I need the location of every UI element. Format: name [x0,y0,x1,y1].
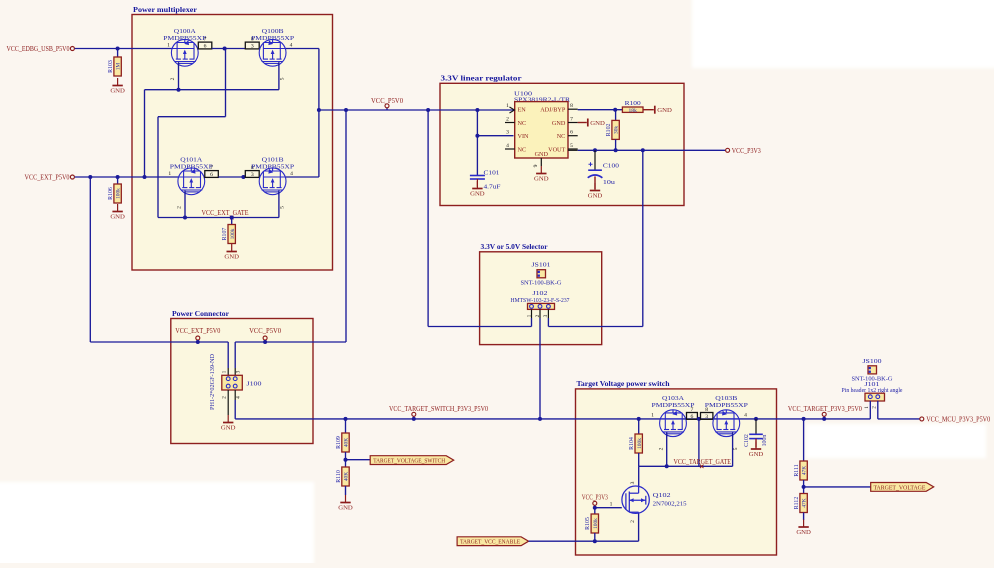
wire VCC_P3V3 to Q102 gate [595,507,622,509]
svg-text:VCC_EXT_GATE: VCC_EXT_GATE [202,209,249,217]
wire Q100B drain down [278,62,280,90]
resistor R107 100k [231,218,233,225]
resistor R103 1M [117,49,119,58]
block 3.3V or 5.0V Selector [480,252,602,345]
junction U100 pin1/pin3 feed [475,108,479,112]
resistor R110 40K [342,467,349,486]
wire vertical x319 [318,49,320,178]
U100 right pin 6 NC [568,135,578,137]
svg-text:R110: R110 [336,470,342,483]
junction Q101A drain [183,216,187,220]
svg-text:R111: R111 [794,464,800,476]
junction R107 top [230,216,234,220]
svg-text:1: 1 [526,314,532,317]
svg-text:4: 4 [236,396,242,399]
net VCC_EXT_GATE wire [158,217,279,219]
svg-text:SNT-100-BK-G: SNT-100-BK-G [521,279,562,286]
svg-text:2N7002,215: 2N7002,215 [653,501,688,508]
svg-text:3: 3 [236,370,242,373]
wire VCC_EDBG_USB_P5V0 to Q100A [75,48,172,50]
svg-text:VCC_MCU_P3V3_P5V0: VCC_MCU_P3V3_P5V0 [926,415,990,423]
svg-text:30k: 30k [614,126,620,134]
svg-text:PMDPB55XP: PMDPB55XP [705,402,748,409]
wire to TARGET_VOLTAGE_SWITCH label [346,459,371,461]
svg-text:1: 1 [864,406,870,409]
svg-text:Q100B: Q100B [262,28,285,35]
svg-text:R109: R109 [336,436,342,449]
svg-text:TARGET_VOLTAGE_SWITCH: TARGET_VOLTAGE_SWITCH [373,458,445,465]
svg-text:4: 4 [744,413,747,419]
svg-text:18k: 18k [629,108,638,114]
gate pin box Q101A pins 7/6 [205,171,219,178]
U100 left pin 4 NC [505,148,515,150]
svg-text:10u: 10u [603,179,616,186]
junction R106 top [116,175,120,179]
junction x428 [426,108,430,112]
junction R102 bottom [614,148,618,152]
svg-text:VCC_EXT_P5V0: VCC_EXT_P5V0 [25,174,70,182]
svg-text:1: 1 [506,103,509,109]
net VCC_TARGET_SWITCH_P3V3_P5V0 wire [235,418,870,420]
svg-text:2: 2 [177,206,183,209]
junction Q103A drain [665,464,669,468]
svg-text:47K: 47K [802,466,808,475]
svg-text:Q101A: Q101A [180,157,202,164]
svg-text:C100: C100 [603,163,620,170]
wire J102 pin3 [547,318,549,327]
junction C100 [593,148,597,152]
svg-text:100k: 100k [116,188,122,199]
wire J101 pin1 down [869,401,871,419]
svg-text:2: 2 [658,447,664,450]
resistor R111 47K [803,419,805,461]
U100 pin1 input arrow [510,107,515,113]
svg-text:ADJ/BYP: ADJ/BYP [540,107,566,114]
gate pin box Q103B pins 8/3 [701,413,713,420]
wire x346 down to power connector [345,110,347,342]
svg-text:J100: J100 [247,381,263,388]
wire J101 pin2 to VCC_MCU port [878,418,920,420]
net VCC_TARGET_GATE wire [639,465,733,467]
junction x144.5 [143,175,147,179]
svg-text:NC: NC [518,146,527,153]
gate pin box Q103A pins 7/6 [687,413,698,420]
resistor R105 100k [594,508,596,514]
wire U100 pin8 ADJ to R100 [578,109,623,111]
wire gate tie vertical x225.5 [225,49,227,117]
svg-text:100k: 100k [593,518,599,529]
svg-text:C102: C102 [744,434,750,447]
wire J100 pin1 drop [227,342,229,368]
svg-text:NC: NC [518,120,527,127]
svg-text:3: 3 [705,414,708,420]
net VCC_P5V0 wire [319,109,515,111]
svg-text:1: 1 [651,413,654,419]
wire VCC_EXT_P5V0 row [75,176,178,178]
wire Q100A drain down [178,62,180,90]
junction to power connector drop [88,175,92,179]
svg-text:5: 5 [280,77,286,80]
svg-text:R106: R106 [108,187,114,200]
wire Q101B drain down [278,191,280,218]
resistor R106 100k [117,177,119,184]
wire vertical x144.5 to VCC_EXT line [144,90,146,177]
svg-text:1: 1 [221,370,227,373]
svg-text:6: 6 [570,130,573,136]
gate pin box Q100A pins 7/6 [198,42,212,49]
junction gate tie bottom pair [241,175,245,179]
svg-text:7: 7 [691,407,694,413]
junction x346 [344,108,348,112]
junction R111/R112 [803,480,805,494]
svg-text:TARGET_VCC_ENABLE: TARGET_VCC_ENABLE [460,539,520,546]
svg-text:GND: GND [534,176,549,183]
svg-text:Q101B: Q101B [262,157,285,164]
junction Q100A drain [177,88,181,92]
wire Q102 source up [638,514,640,542]
svg-text:VIN: VIN [518,133,530,140]
svg-text:7: 7 [210,165,213,171]
svg-text:6: 6 [210,172,213,178]
svg-text:NC: NC [557,133,566,140]
svg-text:Q103B: Q103B [715,395,738,402]
svg-text:GND: GND [221,425,236,432]
junction R111 top [802,417,806,421]
resistor R109 40K [345,419,347,433]
ground under C101 [476,181,478,189]
junction J102 pin2 [538,417,542,421]
svg-text:1: 1 [167,42,170,48]
net label arrow TARGET_VOLTAGE_SWITCH [370,456,454,465]
svg-text:100n: 100n [762,435,768,447]
svg-text:4: 4 [290,171,293,177]
capacitor C102 100n [755,419,757,434]
svg-text:2: 2 [221,396,227,399]
svg-text:Power multiplexer: Power multiplexer [133,5,198,14]
wire gate tie horizontal y116.7 [158,116,226,118]
ground under R107 [231,244,233,252]
svg-text:VCC_EXT_P5V0: VCC_EXT_P5V0 [175,327,220,335]
svg-text:J102: J102 [533,290,548,297]
net VCC_P3V3 wire from VOUT [568,149,578,151]
gate pin box Q101B pins 8/3 [245,171,259,178]
svg-text:3: 3 [630,481,636,484]
svg-text:2: 2 [535,314,541,317]
svg-text:EN: EN [518,107,527,114]
wire Q103A drain down [666,433,668,467]
junction Q103 gate tie [697,417,701,421]
svg-text:JS100: JS100 [863,358,883,365]
svg-text:VOUT: VOUT [548,146,565,153]
net TARGET_VCC_ENABLE wire [529,540,639,542]
svg-text:Target Voltage power switch: Target Voltage power switch [577,379,670,388]
U100 right pin 7 GND [568,122,578,124]
wire drain tie top pair [145,89,279,91]
port VCC_MCU_P3V3_P5V0 [920,417,924,421]
block Power Connector [171,319,313,444]
wire between Q100A and Q100B gates [212,48,246,50]
svg-text:Q102: Q102 [653,492,671,499]
svg-text:100k: 100k [230,228,236,239]
svg-text:4.7uF: 4.7uF [484,184,501,191]
wire vertical x158 to VCC_EXT_GATE [157,117,159,218]
svg-text:Power Connector: Power Connector [172,309,230,318]
wire Q100B pin4 to corner [286,48,319,50]
svg-text:GND: GND [552,120,566,127]
port VCC_P3V3 [726,148,730,152]
svg-text:40K: 40K [344,472,350,481]
wire VCC_EXT drop x90.3 [89,177,91,342]
svg-text:3: 3 [251,172,254,178]
svg-text:47K: 47K [802,498,808,507]
svg-text:R112: R112 [794,497,800,510]
svg-text:7: 7 [204,37,207,43]
junction R104 top [637,417,641,421]
junction x319/y110 [317,108,321,112]
ground right of R100 [654,106,656,114]
svg-text:TARGET_VOLTAGE: TARGET_VOLTAGE [873,484,925,491]
port VCC_TARGET_P3V3_P5V0 [823,416,825,419]
ground under R112 [803,513,805,521]
svg-text:2: 2 [630,520,636,523]
svg-text:1: 1 [610,502,613,508]
junction selector drop [641,148,645,152]
wire Q101B pin4 to x319 [286,176,319,178]
ground under U100 [540,166,542,174]
svg-text:VCC_EDBG_USB_P5V0: VCC_EDBG_USB_P5V0 [7,45,70,53]
svg-text:R104: R104 [629,437,635,450]
wire Q103 gate tie down [698,419,700,466]
svg-text:PMDPB55XP: PMDPB55XP [652,402,695,409]
svg-text:JS101: JS101 [532,261,551,268]
svg-text:VCC_P3V3: VCC_P3V3 [732,147,761,155]
svg-text:5: 5 [280,206,286,209]
resistor R104 100k [638,419,640,434]
svg-text:7: 7 [570,116,573,122]
junction gate tie top pair [223,47,227,51]
svg-text:C101: C101 [484,170,500,177]
wire Q103B drain down [732,433,734,467]
svg-text:3: 3 [543,314,549,317]
svg-text:8: 8 [570,103,573,109]
svg-text:Q103A: Q103A [662,395,684,402]
svg-text:GND: GND [470,191,485,198]
wire between Q101A and Q101B gates [218,176,245,178]
svg-text:5: 5 [733,447,739,450]
wire down to pin3 and C101 [476,110,478,176]
junction R109/R110 [345,452,347,467]
svg-text:40K: 40K [344,438,350,447]
svg-text:GND: GND [535,151,549,158]
svg-text:3.3V or 5.0V Selector: 3.3V or 5.0V Selector [481,242,549,251]
svg-text:4: 4 [290,42,293,48]
block 3.3V linear regulator [440,83,684,205]
resistor R112 47K [800,494,807,513]
svg-text:1M: 1M [116,63,122,71]
svg-text:VCC_P5V0: VCC_P5V0 [249,327,281,335]
svg-text:PH1-2*02GF-139-ND: PH1-2*02GF-139-ND [209,354,216,410]
svg-text:R105: R105 [585,517,591,530]
svg-text:R103: R103 [108,60,114,73]
svg-text:GND: GND [338,505,353,512]
wire J101 pin2 down [877,401,879,419]
wire gate node down to Q102 [638,466,640,486]
svg-text:2: 2 [872,406,878,409]
junction R105 bottom [593,539,597,543]
svg-text:3: 3 [506,130,509,136]
svg-text:GND: GND [110,88,125,95]
svg-text:1: 1 [168,171,171,177]
U100 right pin 5 VOUT [568,148,578,150]
ground under C102 [755,442,757,450]
svg-text:4: 4 [506,143,509,149]
block Power multiplexer [132,15,333,271]
svg-text:GND: GND [224,254,239,261]
svg-text:GND: GND [110,214,125,221]
wire J100 pin3 drop [234,342,236,368]
wire Q101A drain down [184,191,186,218]
svg-text:GND: GND [796,529,811,536]
svg-text:GND: GND [590,120,605,127]
svg-text:VCC_TARGET_SWITCH_P3V3_P5V0: VCC_TARGET_SWITCH_P3V3_P5V0 [389,405,488,413]
ground under R110 [345,486,347,495]
svg-text:R100: R100 [625,100,641,107]
wire between Q103 gates [697,418,700,420]
svg-text:VCC_TARGET_GATE: VCC_TARGET_GATE [674,458,732,466]
svg-text:GND: GND [749,451,764,458]
junction R103 top [116,47,120,51]
ground under J100 pin2 [227,400,229,415]
svg-text:2: 2 [170,77,176,80]
ground under R103 [117,78,119,86]
svg-text:9: 9 [533,164,539,167]
ground at U100 pin7 [578,122,587,124]
resistor R102 30k [615,110,617,121]
svg-text:100k: 100k [637,438,643,449]
U100 right pin 8 ADJ/BYP [568,108,578,110]
ground under C100 [594,183,596,191]
svg-text:Q100A: Q100A [174,28,196,35]
svg-text:3.3V linear regulator: 3.3V linear regulator [441,74,523,83]
svg-text:3: 3 [251,44,254,50]
junction R102 top [613,108,617,112]
wire to TARGET_VOLTAGE label [804,486,871,488]
ground under R106 [117,204,119,212]
net label arrow TARGET_VOLTAGE [871,483,934,492]
port VCC_TARGET_SWITCH_P3V3_P5V0 [413,416,415,419]
wire J102 pin1 [531,318,533,327]
svg-text:6: 6 [691,414,694,420]
svg-text:5: 5 [570,143,573,149]
svg-text:R107: R107 [222,228,228,241]
junction R109 divider [344,417,348,421]
gate pin box Q100B pins 8/3 [245,42,259,49]
svg-text:R102: R102 [606,123,612,136]
wire to U100 pin3 [477,135,513,137]
svg-text:VCC_P3V3: VCC_P3V3 [582,493,608,501]
svg-text:2: 2 [506,116,509,122]
wire x428 down to selector [427,110,429,327]
svg-text:6: 6 [204,44,207,50]
U100 left pin 2 NC [505,122,515,124]
wire J102 pin2 down to target line [539,318,541,419]
wire J100 pin4 to target line [234,400,236,419]
net label arrow TARGET_VCC_ENABLE [457,537,528,546]
wire R100 to ground [643,109,654,111]
svg-text:GND: GND [657,107,672,114]
junction C102 [754,417,758,421]
block Target Voltage power switch [576,389,777,555]
wire selector drop x642.8 [642,150,644,326]
svg-text:GND: GND [588,193,603,200]
